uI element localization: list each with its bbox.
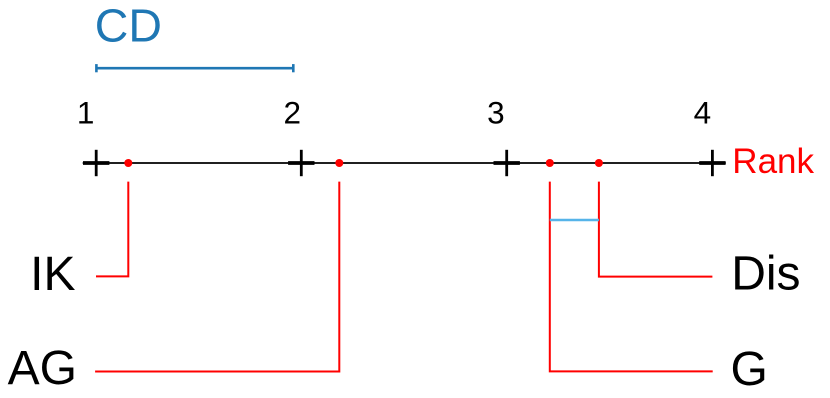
svg-text:2: 2 — [284, 95, 302, 131]
cross 4 — [699, 150, 725, 176]
svg-text:CD: CD — [95, 0, 162, 52]
svg-text:3: 3 — [487, 95, 505, 131]
axis tick labels — [77, 95, 711, 131]
tick crosses — [83, 150, 726, 176]
cross 2 — [288, 150, 314, 176]
svg-text:4: 4 — [694, 95, 712, 131]
clique line (G-Dis) — [550, 219, 599, 222]
CD interval bar — [96, 64, 293, 72]
rank dot IK — [124, 159, 132, 167]
svg-text:Rank: Rank — [732, 142, 814, 181]
cross 1 — [83, 150, 109, 176]
svg-text:Dis: Dis — [731, 248, 800, 301]
svg-text:G: G — [731, 343, 768, 396]
connector Dis — [599, 182, 713, 277]
cross 3 — [494, 150, 520, 176]
connector IK — [96, 182, 128, 277]
svg-text:AG: AG — [8, 342, 77, 395]
rank dot AG — [335, 159, 343, 167]
connector AG — [95, 182, 339, 372]
svg-text:1: 1 — [77, 95, 95, 131]
connector G — [550, 182, 713, 372]
rank dot Dis — [595, 159, 603, 167]
rank dot G — [546, 159, 554, 167]
svg-text:IK: IK — [30, 248, 75, 301]
axis line — [83, 162, 726, 164]
